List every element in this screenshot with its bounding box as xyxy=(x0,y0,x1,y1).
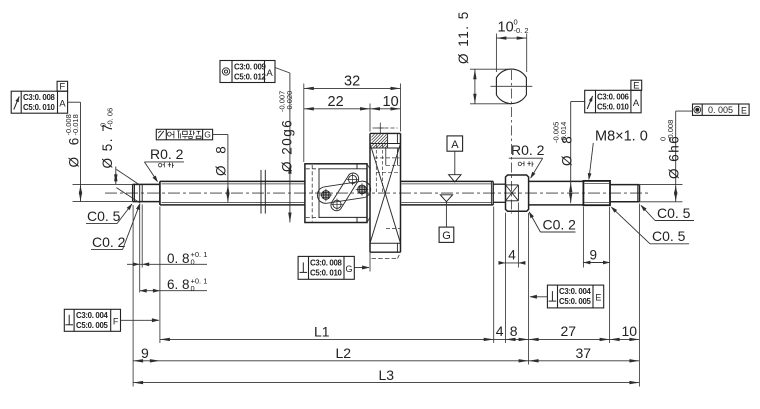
diameter 20g6 label xyxy=(280,119,295,172)
diameter 6h6 label xyxy=(667,135,682,179)
svg-text:-0.018: -0.018 xyxy=(71,114,80,135)
ball screw section left: thread root lines xyxy=(162,183,305,185)
svg-text:Ø 11. 5: Ø 11. 5 xyxy=(456,10,471,64)
diameter 8 dimension line (left) xyxy=(227,135,229,203)
svg-text:8: 8 xyxy=(510,323,518,339)
svg-text:C0. 5: C0. 5 xyxy=(652,228,686,244)
svg-text:32: 32 xyxy=(344,74,360,90)
svg-text:27: 27 xyxy=(561,323,577,339)
wrench flat marks (X) xyxy=(506,184,519,186)
left journal diameter 6 section xyxy=(133,183,160,185)
svg-text:Ø 8: Ø 8 xyxy=(214,142,229,176)
M8 thread root lines xyxy=(585,183,610,185)
ball return tube capsule (shallow) xyxy=(317,181,370,203)
ball screw section right: thread root lines xyxy=(402,183,492,185)
svg-text:10: 10 xyxy=(498,20,514,36)
svg-text:C5:0. 005: C5:0. 005 xyxy=(559,297,592,306)
flats circle (top view, width across flats) xyxy=(496,69,526,104)
wheel inner hidden details xyxy=(375,145,377,193)
leader from E frame to dia8 dim right xyxy=(571,101,585,103)
perpendicularity frame G (below nut) xyxy=(298,256,354,279)
vertical centerline through flats circle and flange xyxy=(510,70,512,214)
leader from concentricity frame xyxy=(275,68,290,74)
hatching in top cap xyxy=(372,134,375,137)
svg-text:F: F xyxy=(59,82,65,93)
svg-text:0: 0 xyxy=(191,258,195,267)
runout frame E (top right) xyxy=(585,90,641,113)
svg-text:-0.020: -0.020 xyxy=(285,91,294,112)
svg-text:M8×1. 0: M8×1. 0 xyxy=(595,129,648,145)
ball pickup hole right (hatched) xyxy=(358,185,367,194)
svg-text:C5:0. 005: C5:0. 005 xyxy=(76,321,109,330)
dimension row 9 / L2 / 37 xyxy=(133,360,639,362)
svg-text:10: 10 xyxy=(622,323,638,339)
hidden hole center above cap xyxy=(373,127,398,129)
svg-text:10: 10 xyxy=(383,94,399,110)
leader from 0.005 frame to dia6h6 dim xyxy=(676,110,693,112)
flange with wrench flats xyxy=(506,175,529,211)
ball track end circle upper xyxy=(349,175,357,183)
svg-text:C3:0. 008: C3:0. 008 xyxy=(310,258,343,267)
dimension 10 across flats xyxy=(495,34,497,73)
diameter 6h6 dimension line xyxy=(675,111,677,202)
dimension 32 xyxy=(304,87,401,89)
svg-text:C5:0. 010: C5:0. 010 xyxy=(597,102,630,111)
ball screw section left: outer edges xyxy=(160,180,305,182)
groove position dimension 6.8 xyxy=(140,290,207,292)
R0.2 left leader xyxy=(144,162,157,181)
diameter 6 label xyxy=(67,134,82,168)
right end face with chamfer xyxy=(638,185,640,202)
undercut neck section xyxy=(493,183,505,185)
svg-text:-0. 06: -0. 06 xyxy=(106,108,115,127)
svg-text:C0. 5: C0. 5 xyxy=(657,205,691,221)
M8 length dimension 9 xyxy=(582,207,584,268)
extension lines from left journal edges xyxy=(73,183,133,185)
svg-text:6. 8: 6. 8 xyxy=(167,277,190,292)
screw end double line xyxy=(490,181,492,205)
circlip groove 0.8 wide xyxy=(139,184,141,201)
centerline of shaft xyxy=(105,192,650,194)
svg-text:A: A xyxy=(633,98,640,109)
svg-text:A: A xyxy=(266,68,273,79)
svg-text:-0.014: -0.014 xyxy=(559,122,568,143)
svg-text:0: 0 xyxy=(191,284,195,293)
svg-text:C3:0. 004: C3:0. 004 xyxy=(76,311,109,320)
svg-text:0. 005: 0. 005 xyxy=(708,105,733,115)
svg-text:9: 9 xyxy=(141,345,149,361)
datum target A xyxy=(447,136,463,151)
svg-text:A: A xyxy=(451,139,459,151)
leader from F frame to dia6 dim xyxy=(68,101,81,103)
svg-text:9: 9 xyxy=(590,248,598,263)
groove projection lines xyxy=(116,169,138,184)
svg-text:C3:0. 004: C3:0. 004 xyxy=(559,287,592,296)
svg-text:Ø 20g6: Ø 20g6 xyxy=(280,119,295,172)
svg-text:F: F xyxy=(113,317,119,327)
dimension row L3 xyxy=(133,382,639,384)
svg-text:G: G xyxy=(442,230,451,242)
nut inner body lines xyxy=(319,168,367,170)
svg-text:E: E xyxy=(741,105,747,115)
svg-text:C3:0. 006: C3:0. 006 xyxy=(597,92,630,101)
leader from note frame to dia8 dim xyxy=(213,134,228,136)
perpendicularity frame E (right) xyxy=(547,285,603,308)
wheel cross (flat surface X) xyxy=(370,144,401,244)
svg-text:G: G xyxy=(204,130,211,140)
nut hidden lines (dashed) xyxy=(311,165,313,222)
shoulder step to diameter 8 xyxy=(159,181,161,205)
svg-text:0. 8: 0. 8 xyxy=(167,251,190,266)
svg-text:C0. 2: C0. 2 xyxy=(92,234,126,250)
svg-text:4: 4 xyxy=(496,323,504,339)
svg-text:G: G xyxy=(345,264,352,274)
svg-text:E: E xyxy=(595,293,601,303)
diameter 8 label (right) xyxy=(560,132,575,166)
svg-text:C3:0. 008: C3:0. 008 xyxy=(23,93,56,102)
diameter 8 label (left) xyxy=(214,142,229,176)
extension lines for 32/22/10 dims xyxy=(303,84,305,163)
note glyphs (Korean) xyxy=(167,131,173,139)
flats width dimension 4 xyxy=(517,203,519,268)
svg-text:L1: L1 xyxy=(314,324,330,340)
diameter 6h6 end section xyxy=(610,184,639,186)
svg-text:C0. 2: C0. 2 xyxy=(543,216,577,232)
svg-text:L2: L2 xyxy=(336,345,352,361)
svg-text:R0. 2: R0. 2 xyxy=(150,146,184,162)
ball pickup hole left (hatched) xyxy=(322,191,331,200)
svg-text:C5:0. 010: C5:0. 010 xyxy=(310,268,343,277)
concentricity frame for nut OD xyxy=(220,61,275,83)
extension lines from right end xyxy=(639,184,682,186)
R0.2 right leader xyxy=(531,158,543,177)
ball screw section right: outer edges xyxy=(401,180,494,182)
datum target G xyxy=(439,227,454,242)
dimension 10 (wheel width) xyxy=(370,108,401,110)
flanged wheel section: left and right edges xyxy=(369,133,371,252)
M8 thread section xyxy=(583,181,610,205)
svg-text:37: 37 xyxy=(576,345,592,361)
extension lines bottom xyxy=(132,205,134,387)
svg-text:L3: L3 xyxy=(379,367,395,383)
dimension row L1 / 4 / 8 / 27 / 10 xyxy=(160,338,640,340)
runout frame F (top left) xyxy=(11,91,67,113)
wheel bottom cap xyxy=(370,242,401,244)
perpendicularity frame F (bottom left) xyxy=(64,309,120,331)
svg-text:-0. 2: -0. 2 xyxy=(514,26,529,35)
svg-text:4: 4 xyxy=(508,248,516,263)
svg-text:Ø 5. 7: Ø 5. 7 xyxy=(100,123,115,169)
nut right corner tapers xyxy=(367,164,370,169)
svg-text:22: 22 xyxy=(328,94,344,110)
diameter 6 dimension line xyxy=(80,102,82,201)
diameter 8 dimension line (right) xyxy=(570,102,572,204)
diameter 5.7 label xyxy=(100,123,115,169)
surface note frame with G (hatch note) xyxy=(156,129,212,140)
diameter 11.5 label xyxy=(456,10,471,64)
nut right step verticals xyxy=(356,164,358,169)
ball track end circle lower xyxy=(333,200,341,208)
diameter 5.7 groove dimension xyxy=(115,167,117,185)
svg-text:C0. 5: C0. 5 xyxy=(87,208,121,224)
svg-text:A: A xyxy=(59,98,66,109)
diameter 20g6 dimension line xyxy=(289,73,291,223)
wheel top cap xyxy=(370,132,401,134)
svg-text:-0.008: -0.008 xyxy=(666,120,675,141)
dimension 22 xyxy=(304,108,370,110)
svg-text:Ø 6: Ø 6 xyxy=(67,134,82,168)
extension line wheel left edge down xyxy=(369,252,371,271)
shaft left end face with C0.5 chamfer xyxy=(132,184,134,201)
svg-text:E: E xyxy=(633,81,639,92)
ball nut block outline xyxy=(305,164,367,223)
wiper ring on screw shaft xyxy=(260,170,262,214)
ball track capsule (steep) xyxy=(331,173,359,211)
dimension 11.5 circle xyxy=(470,68,512,70)
svg-text:C5:0. 012: C5:0. 012 xyxy=(234,73,267,82)
groove dimension 0.8 xyxy=(139,205,141,293)
svg-text:C5:0. 010: C5:0. 010 xyxy=(23,103,56,112)
bearing journal diameter 8 section xyxy=(529,180,584,182)
svg-text:R0. 2: R0. 2 xyxy=(511,142,545,158)
svg-text:C3:0. 009: C3:0. 009 xyxy=(234,63,267,72)
concentricity 0.005 E frame xyxy=(693,104,750,115)
wheel bottom hidden skirt xyxy=(372,257,398,259)
